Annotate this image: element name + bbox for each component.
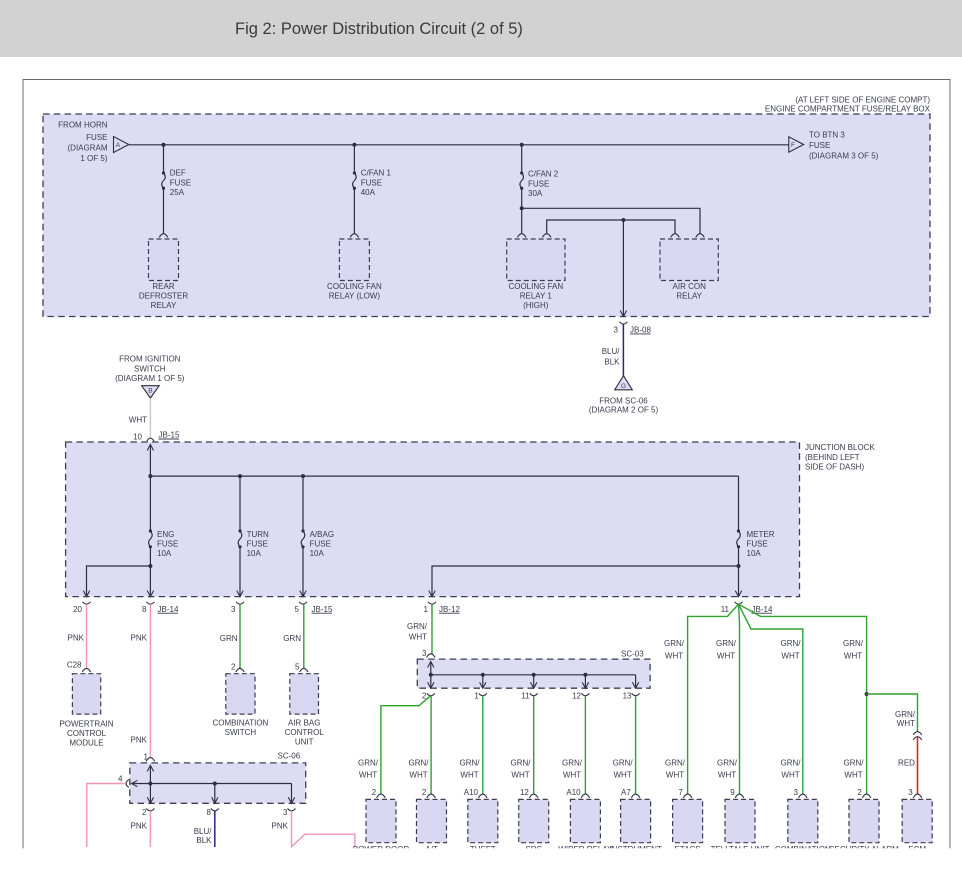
wire SC-06 drop 3	[291, 784, 293, 804]
svg-text:G: G	[621, 383, 626, 390]
arrow SC-06 pin4 inner	[132, 780, 138, 786]
relay AIR CON RELAY	[660, 239, 718, 281]
svg-text:TO BTN 3: TO BTN 3	[809, 131, 845, 140]
wire TURN fuse down	[239, 547, 241, 597]
svg-text:GRN: GRN	[283, 634, 301, 643]
junction block box	[66, 442, 800, 597]
relay COOLING FAN RELAY (LOW)	[339, 239, 369, 281]
connector box INSTRUMENT	[621, 799, 651, 842]
svg-text:2: 2	[857, 788, 862, 797]
svg-text:WHT: WHT	[409, 771, 427, 780]
svg-text:ENG: ENG	[157, 530, 174, 539]
arrow SC-03 pin2	[428, 682, 434, 688]
svg-text:(DIAGRAM 3 OF 5): (DIAGRAM 3 OF 5)	[809, 152, 879, 161]
wire junction bus	[150, 475, 738, 477]
arrow exit JB-08	[620, 311, 626, 317]
svg-text:1: 1	[144, 752, 149, 761]
svg-text:WHT: WHT	[665, 651, 683, 660]
svg-text:WHT: WHT	[511, 771, 529, 780]
pin cup bottom 3	[913, 794, 922, 798]
wire BLU/BLK to G	[622, 324, 624, 376]
pin cup air con relay left	[671, 234, 680, 238]
pin cup air con relay right	[696, 234, 705, 238]
svg-text:13: 13	[623, 692, 632, 701]
arrow entry SC-03	[428, 662, 434, 668]
arrow SC-06 pin2	[147, 797, 153, 803]
wire PNK pin8 to SC-06	[149, 604, 151, 758]
svg-text:GRN/: GRN/	[511, 759, 532, 768]
arrow exit pin1	[429, 591, 435, 597]
svg-text:BLK: BLK	[196, 836, 212, 845]
wire GRNWHT fan4	[739, 604, 867, 794]
connector box COMBINATION	[788, 799, 818, 842]
arrow exit pin8	[147, 591, 153, 597]
wire bus2 to ENG fuse	[149, 476, 151, 531]
arrow SC-03 pin11	[531, 682, 537, 688]
wire SC-06 vert pin1-2	[149, 765, 151, 803]
pin cup 5	[299, 602, 307, 604]
wire ENG branch pin20	[87, 566, 151, 596]
node ENG branch	[148, 564, 152, 568]
pin cup 8	[146, 602, 154, 604]
fuse DEF 25A	[162, 171, 165, 174]
connector box POWER DOOR	[366, 799, 396, 842]
wire CFAN1 fuse to relay	[353, 188, 355, 234]
node bus-DEF	[162, 143, 166, 147]
node relay link tap	[621, 218, 625, 222]
svg-text:WHT: WHT	[844, 651, 862, 660]
svg-text:ENGINE COMPARTMENT FUSE/RELAY: ENGINE COMPARTMENT FUSE/RELAY BOX	[765, 105, 931, 114]
svg-text:FROM SC-06: FROM SC-06	[599, 396, 648, 405]
svg-text:WHT: WHT	[844, 771, 862, 780]
pin cup 11	[735, 602, 743, 604]
svg-text:25A: 25A	[170, 188, 185, 197]
wire METER branch pin1	[432, 566, 739, 596]
svg-text:PNK: PNK	[131, 736, 148, 745]
svg-text:WHT: WHT	[781, 771, 799, 780]
svg-text:WHT: WHT	[718, 771, 736, 780]
svg-text:MODULE: MODULE	[69, 738, 103, 747]
node SC-03 a	[429, 673, 433, 677]
svg-text:WHT: WHT	[666, 771, 684, 780]
wire GRN sc03-11	[533, 696, 535, 795]
svg-text:GRN/: GRN/	[716, 639, 737, 648]
svg-text:A10: A10	[464, 788, 479, 797]
svg-text:WHT: WHT	[717, 651, 735, 660]
svg-text:JB-14: JB-14	[158, 605, 179, 614]
svg-text:TURN: TURN	[247, 530, 269, 539]
svg-text:GRN/: GRN/	[358, 759, 379, 768]
pin cup bottom 7	[683, 794, 692, 798]
connector arrow A	[114, 137, 129, 153]
wire RED to box11	[917, 737, 919, 794]
fuse C/FAN2 30A	[520, 171, 523, 174]
wire SC-03 bus	[431, 674, 636, 676]
svg-text:RED: RED	[898, 759, 915, 768]
svg-text:GRN/: GRN/	[843, 639, 864, 648]
wire PNK below pin2	[149, 811, 151, 847]
svg-text:9: 9	[730, 788, 735, 797]
svg-text:3: 3	[908, 788, 913, 797]
svg-text:JB-12: JB-12	[439, 605, 460, 614]
pin cup bottom A7	[631, 794, 640, 798]
svg-text:GRN/: GRN/	[717, 759, 738, 768]
svg-text:WHT: WHT	[129, 415, 147, 424]
wire bus2 to TURN fuse	[239, 476, 241, 531]
connector box SRS	[519, 799, 549, 842]
pin cup SC-03 bottom	[530, 693, 538, 695]
pin cup SC-06 pin4	[126, 780, 129, 788]
fuse C/FAN1 40A	[353, 171, 356, 174]
svg-text:GRN/: GRN/	[562, 759, 583, 768]
svg-text:FROM IGNITION: FROM IGNITION	[119, 355, 181, 364]
svg-text:AIR BAG: AIR BAG	[288, 719, 320, 728]
svg-text:A7: A7	[621, 788, 631, 797]
wire GRN pin5 to airbag	[303, 604, 305, 668]
svg-text:GRN/: GRN/	[781, 759, 802, 768]
svg-text:COMBINATION: COMBINATION	[212, 719, 268, 728]
wire to cooling fan relay1 pin1	[521, 208, 523, 234]
splice box SC-06	[130, 763, 306, 803]
svg-text:5: 5	[295, 605, 300, 614]
svg-text:8: 8	[142, 605, 147, 614]
svg-text:RELAY (LOW): RELAY (LOW)	[329, 291, 381, 300]
svg-text:FUSE: FUSE	[747, 539, 768, 548]
svg-text:3: 3	[614, 326, 619, 335]
svg-text:A10: A10	[566, 788, 581, 797]
pin cup JB-08	[619, 322, 627, 324]
pin cup SC-03 bottom	[581, 693, 589, 695]
svg-text:FUSE: FUSE	[170, 178, 191, 187]
svg-text:GRN/: GRN/	[895, 710, 916, 719]
wire SC-03 drop 1	[482, 675, 484, 688]
arrow exit pin11	[735, 591, 741, 597]
node meter split	[737, 564, 741, 568]
node SC-06 a	[148, 782, 152, 786]
svg-text:GRN/: GRN/	[664, 639, 685, 648]
pin cup 3	[236, 602, 244, 604]
pin cup bottom 12	[529, 794, 538, 798]
node bus2-TURN	[238, 474, 242, 478]
svg-text:10A: 10A	[310, 549, 325, 558]
svg-text:FUSE: FUSE	[809, 141, 830, 150]
svg-text:1: 1	[424, 605, 429, 614]
node SC-03 b	[481, 673, 485, 677]
arrow SC-06 pin8	[212, 797, 218, 803]
pin cup airbag	[300, 668, 309, 672]
wire main bus	[129, 144, 789, 146]
svg-text:BLK: BLK	[604, 357, 620, 366]
pin cup 1	[428, 602, 436, 604]
pin cup SC-03 bottom	[427, 693, 435, 695]
node SC-03 c	[532, 673, 536, 677]
wire bus2 corner to METER fuse	[738, 476, 740, 531]
wire BLU/BLK below pin8	[214, 811, 216, 847]
connector arrow G	[615, 376, 633, 390]
wire bus to CFAN2 fuse	[521, 145, 523, 173]
pin cup C28	[82, 668, 91, 672]
svg-text:METER: METER	[747, 530, 775, 539]
pin cup cooling fan relay1 left	[517, 234, 526, 238]
svg-text:SWITCH: SWITCH	[225, 728, 257, 737]
node SC-03 d	[583, 673, 587, 677]
pin cup SC-03 bottom	[632, 693, 640, 695]
wire SC-06 bus	[133, 783, 292, 785]
svg-text:COOLING FAN: COOLING FAN	[327, 282, 382, 291]
svg-text:SIDE OF DASH): SIDE OF DASH)	[805, 463, 864, 472]
svg-text:WHT: WHT	[897, 719, 915, 728]
wire DEF fuse to relay	[163, 188, 165, 234]
svg-text:PNK: PNK	[272, 822, 289, 831]
svg-text:WHT: WHT	[613, 771, 631, 780]
pin cup SC-03 bottom	[479, 693, 487, 695]
svg-text:30A: 30A	[528, 189, 543, 198]
svg-text:C/FAN 1: C/FAN 1	[361, 169, 392, 178]
svg-text:12: 12	[520, 788, 529, 797]
svg-text:BLU/: BLU/	[602, 347, 621, 356]
wire SC-03 entry	[430, 662, 432, 675]
pin cup cooling fan relay1 right	[542, 234, 551, 238]
pin cup bottom 3	[799, 794, 808, 798]
svg-text:DEF: DEF	[170, 169, 186, 178]
arrow exit pin3	[237, 591, 243, 597]
wire B to JB-15 pin10 (WHT)	[149, 398, 151, 438]
arrow SC-06 pin3	[288, 797, 294, 803]
svg-text:10A: 10A	[247, 549, 262, 558]
fuse ENG 10A	[149, 529, 152, 532]
svg-text:10: 10	[133, 433, 142, 442]
wire SC-03 drop 2	[430, 675, 432, 688]
node bus2-ENG	[148, 474, 152, 478]
svg-text:2: 2	[372, 788, 377, 797]
wire GRNWHT branch red	[867, 694, 918, 732]
svg-text:(DIAGRAM 2 OF 5): (DIAGRAM 2 OF 5)	[589, 406, 659, 415]
arrow exit pin20	[83, 591, 89, 597]
wire PNK pin20 to C28	[86, 604, 88, 668]
engine compartment fuse/relay box	[43, 114, 930, 317]
svg-text:GRN/: GRN/	[781, 639, 802, 648]
wire GRNWHT pin1 to SC-03	[431, 604, 433, 654]
arrow SC-03 pin1	[480, 682, 486, 688]
pin cup SC-06 bottom	[146, 809, 154, 811]
svg-text:CONTROL: CONTROL	[285, 728, 325, 737]
node bus2-ABAG	[301, 474, 305, 478]
svg-text:JB-15: JB-15	[159, 431, 180, 440]
svg-text:FUSE: FUSE	[247, 539, 268, 548]
svg-text:PNK: PNK	[131, 822, 148, 831]
svg-text:WHT: WHT	[563, 771, 581, 780]
svg-text:WHT: WHT	[781, 651, 799, 660]
svg-text:(DIAGRAM: (DIAGRAM	[68, 144, 108, 153]
svg-text:RELAY: RELAY	[151, 301, 177, 310]
wire GRN sc03-2 straight	[430, 696, 432, 795]
svg-text:REAR: REAR	[152, 282, 174, 291]
svg-text:JB-08: JB-08	[630, 326, 651, 335]
wire bus to CFAN1 fuse	[353, 145, 355, 173]
svg-text:FUSE: FUSE	[86, 133, 107, 142]
svg-text:SC-06: SC-06	[278, 751, 301, 760]
svg-text:WHT: WHT	[460, 771, 478, 780]
svg-text:PNK: PNK	[68, 634, 85, 643]
wire PNK pin4	[87, 784, 125, 848]
svg-text:GRN/: GRN/	[844, 759, 865, 768]
header bar	[0, 0, 962, 57]
svg-text:F: F	[791, 142, 795, 149]
svg-text:DEFROSTER: DEFROSTER	[139, 291, 189, 300]
wire GRN sc03-2 detour	[381, 696, 431, 795]
svg-text:3: 3	[283, 808, 288, 817]
svg-text:12: 12	[572, 692, 581, 701]
pin cup SC-06 bottom	[288, 809, 296, 811]
pin cup comb switch	[236, 668, 245, 672]
splice box SC-03	[417, 659, 650, 688]
node SC-06 b	[213, 782, 217, 786]
wire GRN pin3 to comb switch	[239, 604, 241, 668]
connector box ETACS	[673, 799, 703, 842]
relay COOLING FAN RELAY 1 (HIGH)	[507, 239, 565, 281]
wire SC-03 drop 12	[584, 675, 586, 688]
pin cup 20	[83, 602, 91, 604]
svg-text:3: 3	[794, 788, 799, 797]
svg-text:WHT: WHT	[409, 633, 427, 642]
svg-text:WHT: WHT	[359, 771, 377, 780]
svg-text:10A: 10A	[747, 549, 762, 558]
svg-text:GRN/: GRN/	[665, 759, 686, 768]
pin cup bottom A10	[479, 794, 488, 798]
wire link to JB-08	[622, 220, 624, 316]
arrow entry SC-06 pin1	[147, 765, 153, 771]
box air bag control unit	[290, 674, 319, 714]
svg-text:C/FAN 2: C/FAN 2	[528, 170, 559, 179]
pin cup bottom A10	[581, 794, 590, 798]
wire ABAG fuse down	[302, 547, 304, 597]
svg-text:FUSE: FUSE	[361, 178, 382, 187]
pin cup JB-15 entry	[147, 438, 154, 441]
svg-text:5: 5	[295, 662, 300, 671]
svg-text:GRN/: GRN/	[409, 759, 430, 768]
pin cup cooling fan relay low	[350, 234, 359, 238]
connector box A/T	[417, 799, 447, 842]
pin cup bottom 9	[735, 794, 744, 798]
svg-text:A/BAG: A/BAG	[310, 530, 334, 539]
svg-text:(AT LEFT SIDE OF ENGINE COMPT): (AT LEFT SIDE OF ENGINE COMPT)	[795, 95, 930, 104]
wire GRNWHT fan1	[688, 604, 739, 794]
relay REAR DEFROSTER RELAY	[149, 239, 179, 281]
wire to air con relay pin2	[522, 208, 700, 234]
svg-text:GRN/: GRN/	[460, 759, 481, 768]
svg-text:11: 11	[521, 692, 530, 701]
svg-text:A: A	[116, 142, 121, 149]
svg-text:GRN/: GRN/	[407, 622, 428, 631]
svg-text:FUSE: FUSE	[157, 539, 178, 548]
connector box THEFT	[468, 799, 498, 842]
pin cup SC-06 pin1	[146, 758, 155, 762]
connector box ECM	[902, 799, 932, 842]
pin cup bottom 2	[862, 794, 871, 798]
wire SC-03 drop 11	[533, 675, 535, 688]
wire SC-03 drop 13	[635, 675, 637, 688]
pin cup bottom 2	[377, 794, 386, 798]
svg-text:(BEHIND LEFT: (BEHIND LEFT	[805, 453, 860, 462]
svg-text:2: 2	[142, 808, 147, 817]
svg-text:20: 20	[73, 605, 82, 614]
svg-text:10A: 10A	[157, 549, 172, 558]
svg-text:(HIGH): (HIGH)	[523, 301, 549, 310]
svg-text:AIR CON: AIR CON	[673, 282, 707, 291]
arrow entry pin10	[147, 445, 153, 451]
svg-text:(DIAGRAM 1 OF 5): (DIAGRAM 1 OF 5)	[115, 374, 185, 383]
node CFAN2 split	[520, 206, 524, 210]
svg-text:11: 11	[721, 605, 730, 614]
svg-text:UNIT: UNIT	[295, 737, 314, 746]
wire bus2 to ABAG fuse	[302, 476, 304, 531]
wire relay output link	[547, 220, 675, 234]
svg-text:2: 2	[231, 662, 236, 671]
svg-text:Fig 2: Power Distribution Circ: Fig 2: Power Distribution Circuit (2 of …	[235, 20, 523, 38]
node bus-CFAN2	[520, 143, 524, 147]
svg-text:B: B	[148, 388, 153, 395]
arrow SC-03 pin13	[632, 682, 638, 688]
svg-text:3: 3	[231, 605, 236, 614]
wire PNK below pin3	[292, 811, 355, 847]
connector arrow B	[142, 386, 160, 398]
wire CFAN2 fuse to junction	[521, 188, 523, 208]
svg-text:CONTROL: CONTROL	[67, 729, 107, 738]
svg-text:40A: 40A	[361, 188, 376, 197]
wire entry to bus2	[149, 445, 151, 477]
box combination switch	[226, 674, 255, 714]
wire GRN sc03-13	[635, 696, 637, 795]
bottom crop	[0, 848, 962, 872]
node fan4 tap	[865, 692, 869, 696]
svg-text:8: 8	[207, 808, 212, 817]
svg-text:2: 2	[422, 788, 427, 797]
wire GRN sc03-12	[584, 696, 586, 795]
pin cup SC-06 bottom	[211, 809, 219, 811]
arrow exit pin5	[300, 591, 306, 597]
fuse TURN 10A	[238, 529, 241, 532]
wire ENG fuse down	[149, 547, 151, 597]
svg-text:SC-03: SC-03	[621, 650, 644, 659]
connector box WIPER RELAY	[570, 799, 600, 842]
svg-text:FROM HORN: FROM HORN	[58, 121, 108, 130]
svg-text:7: 7	[678, 788, 683, 797]
svg-text:JUNCTION BLOCK: JUNCTION BLOCK	[805, 443, 875, 452]
svg-text:JB-15: JB-15	[312, 605, 333, 614]
wire GRN sc03-1	[482, 696, 484, 795]
box powertrain control module	[72, 674, 100, 714]
svg-text:RELAY 1: RELAY 1	[520, 291, 553, 300]
wire METER fuse down	[738, 547, 740, 597]
svg-text:4: 4	[118, 775, 123, 784]
svg-text:GRN: GRN	[220, 634, 238, 643]
pin cup rear defroster relay	[159, 234, 168, 238]
arrow SC-03 pin12	[582, 682, 588, 688]
svg-text:1: 1	[474, 692, 479, 701]
svg-text:RELAY: RELAY	[676, 291, 702, 300]
connector arrow F	[789, 137, 804, 152]
pin cup bottom 2	[427, 794, 436, 798]
fuse METER 10A	[737, 529, 740, 532]
svg-text:1 OF 5): 1 OF 5)	[80, 154, 107, 163]
svg-text:PNK: PNK	[131, 634, 148, 643]
wire GRNWHT fan2	[739, 604, 740, 794]
svg-text:FUSE: FUSE	[310, 539, 331, 548]
wire GRNWHT fan3	[739, 604, 803, 794]
inline connector GRN-RED	[913, 732, 922, 735]
pin cup SC-03 pin3	[427, 654, 436, 658]
svg-text:FUSE: FUSE	[528, 179, 549, 188]
